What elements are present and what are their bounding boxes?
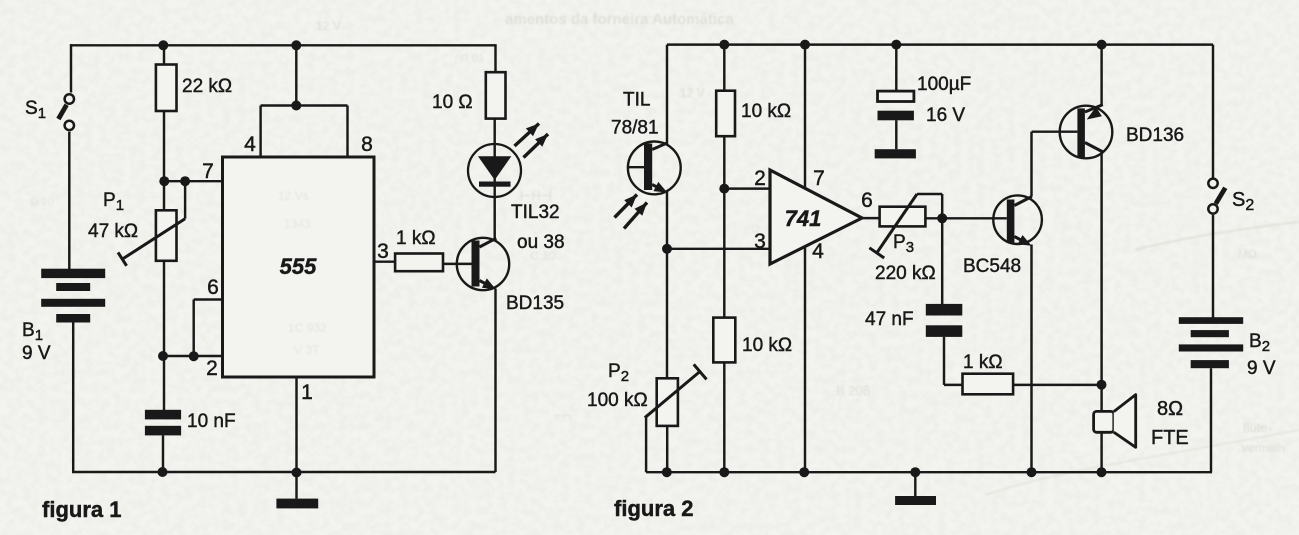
svg-text:nR 01: nR 01 — [455, 53, 484, 65]
svg-text:B 208: B 208 — [836, 383, 870, 398]
svg-text:12 Vs: 12 Vs — [278, 189, 309, 203]
svg-text:47 kΩ: 47 kΩ — [88, 221, 138, 242]
svg-text:741: 741 — [785, 206, 822, 231]
svg-text:8: 8 — [361, 133, 373, 156]
svg-text:1: 1 — [301, 381, 313, 404]
svg-text:1 kΩ: 1 kΩ — [963, 352, 1003, 373]
svg-text:10 nF: 10 nF — [187, 411, 236, 432]
svg-text:BC548: BC548 — [963, 256, 1021, 277]
svg-text:6: 6 — [861, 189, 873, 212]
svg-text:9 V: 9 V — [22, 343, 51, 364]
svg-text:ou 38: ou 38 — [517, 232, 565, 253]
svg-text:555: 555 — [280, 254, 317, 279]
svg-text:7: 7 — [813, 167, 825, 190]
svg-text:BD136: BD136 — [1126, 125, 1184, 146]
svg-text:TIL32: TIL32 — [511, 202, 560, 223]
svg-text:9 V: 9 V — [1247, 358, 1276, 379]
svg-text:4: 4 — [244, 133, 256, 156]
svg-text:10 Ω: 10 Ω — [432, 92, 473, 113]
svg-text:V 3T: V 3T — [294, 343, 320, 357]
svg-text:10 kΩ: 10 kΩ — [741, 101, 791, 122]
svg-text:78/81: 78/81 — [611, 118, 659, 139]
svg-text:2: 2 — [754, 167, 766, 190]
svg-text:MΩ: MΩ — [1238, 247, 1257, 261]
svg-text:2: 2 — [206, 357, 218, 380]
svg-text:FTE: FTE — [1151, 427, 1189, 449]
svg-text:12 V: 12 V — [316, 19, 341, 33]
svg-text:16 V: 16 V — [926, 105, 965, 126]
svg-text:figura 1: figura 1 — [42, 497, 121, 522]
svg-text:BD135: BD135 — [506, 293, 564, 314]
svg-text:4: 4 — [812, 240, 824, 263]
svg-text:flüte-: flüte- — [1243, 420, 1272, 435]
svg-text:TIL: TIL — [623, 90, 650, 111]
svg-text:1C 932: 1C 932 — [288, 321, 327, 335]
svg-text:100 kΩ: 100 kΩ — [587, 390, 648, 411]
svg-text:100µF: 100µF — [917, 74, 971, 95]
svg-text:3: 3 — [377, 240, 389, 263]
svg-text:6: 6 — [207, 276, 219, 299]
svg-text:figura 2: figura 2 — [614, 496, 693, 521]
svg-text:1 kΩ: 1 kΩ — [396, 228, 436, 249]
svg-text:⌐¬: ⌐¬ — [555, 407, 571, 423]
svg-text:12 V: 12 V — [680, 86, 705, 100]
svg-text:vermelh: vermelh — [1242, 441, 1285, 455]
svg-text:8Ω: 8Ω — [1157, 398, 1183, 420]
svg-text:10 kΩ: 10 kΩ — [742, 335, 792, 356]
svg-text:22 kΩ: 22 kΩ — [182, 76, 232, 97]
svg-text:⊢H⊣: ⊢H⊣ — [520, 188, 552, 203]
svg-text:47 nF: 47 nF — [865, 309, 914, 330]
svg-text:1343: 1343 — [284, 217, 311, 231]
svg-text:amentos da forneira Automática: amentos da forneira Automática — [505, 11, 734, 28]
svg-text:Ω 10: Ω 10 — [30, 196, 54, 208]
svg-text:7: 7 — [202, 160, 214, 183]
svg-text:220 kΩ: 220 kΩ — [875, 263, 936, 284]
svg-text:3: 3 — [754, 230, 766, 253]
